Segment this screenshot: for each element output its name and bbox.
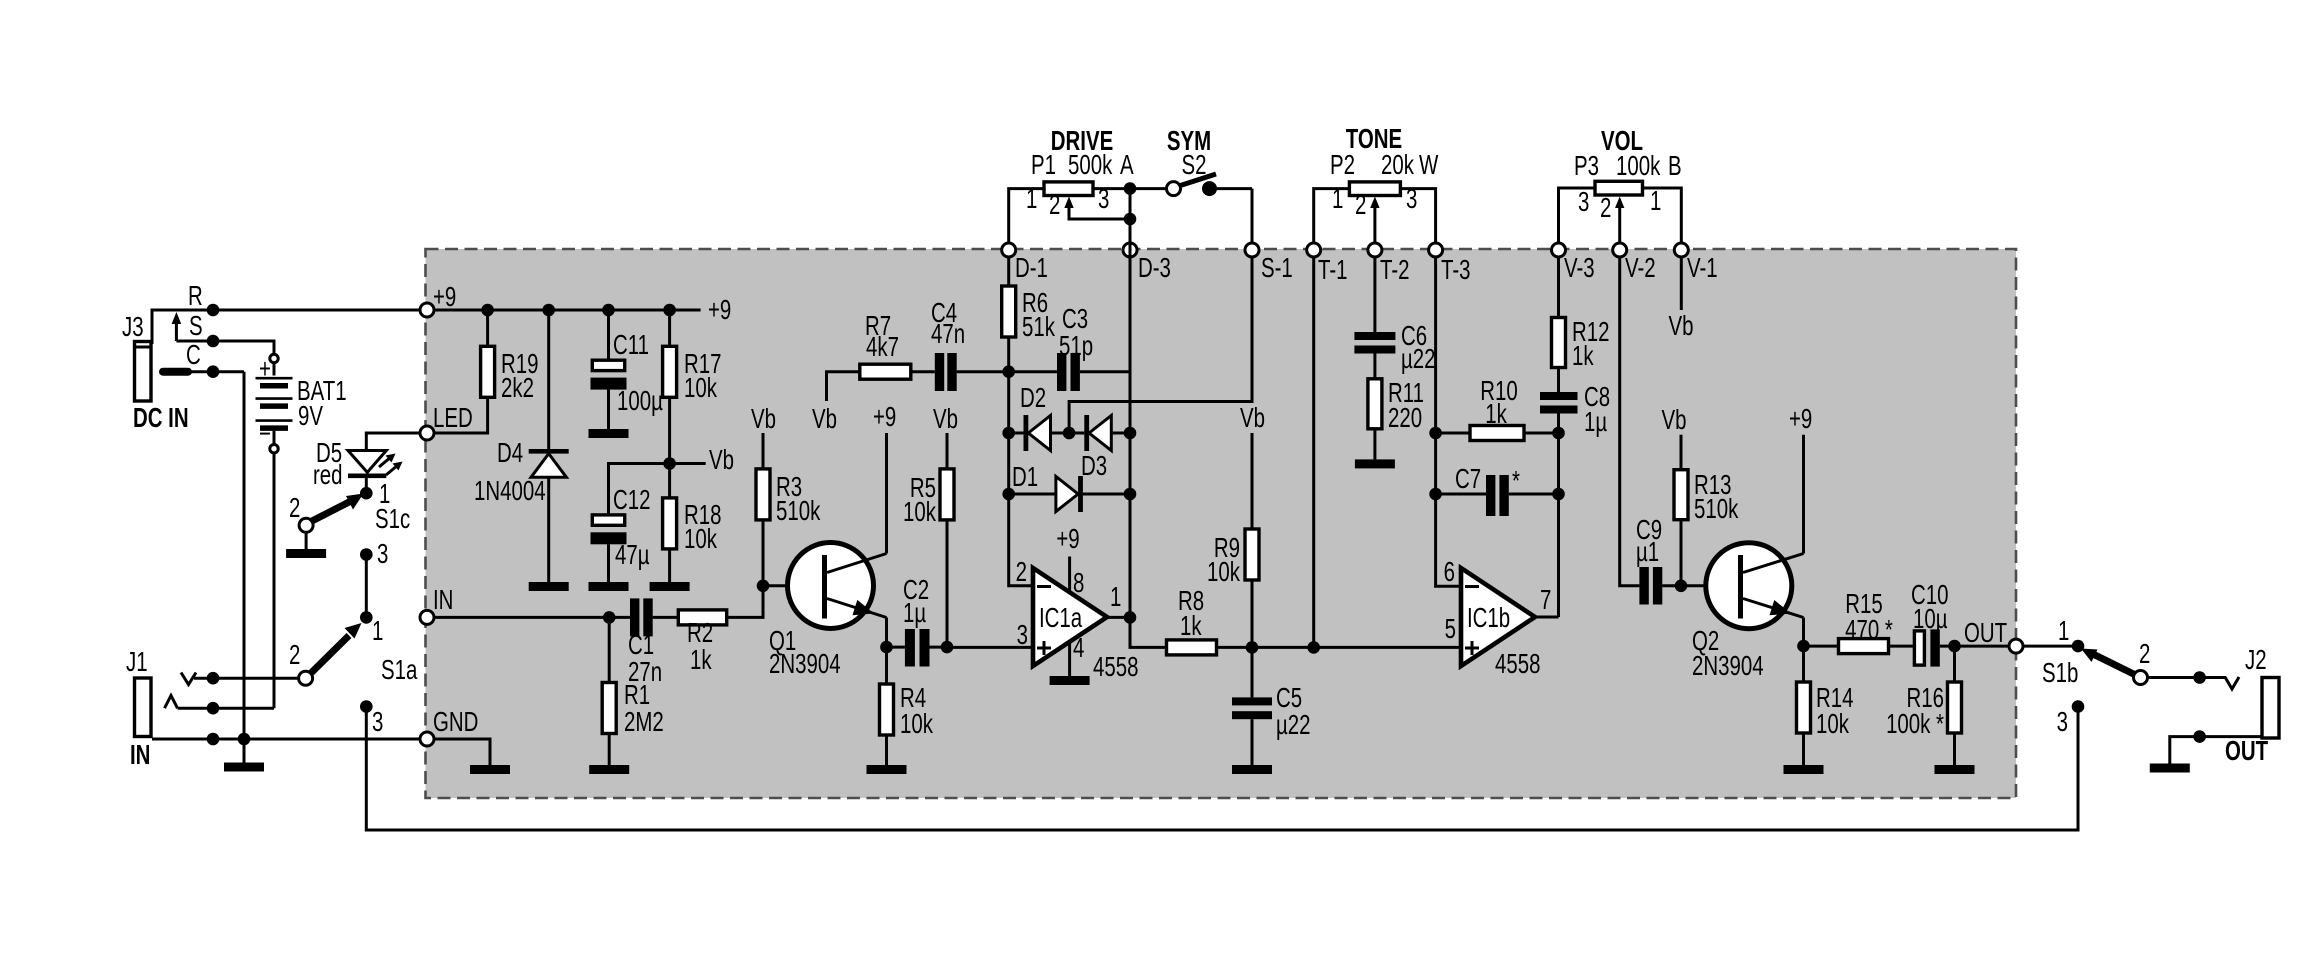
wire IC1a output [1107, 616, 1130, 619]
svg-text:2N3904: 2N3904 [1692, 651, 1764, 682]
svg-text:500k: 500k [1068, 150, 1113, 181]
J2 tip spring contact [2225, 677, 2239, 689]
svg-text:1k: 1k [690, 645, 712, 676]
svg-text:220: 220 [1388, 403, 1422, 434]
svg-text:µ22: µ22 [1401, 344, 1436, 375]
ground at S1c [286, 532, 326, 558]
svg-text:P2: P2 [1330, 150, 1355, 181]
terminal +9 [420, 282, 456, 317]
svg-text:−: − [259, 419, 271, 450]
svg-text:10k: 10k [684, 373, 718, 404]
capacitor C2 1u [887, 575, 948, 666]
svg-text:Vb: Vb [933, 404, 958, 435]
junction D1/D-3 column [1124, 488, 1137, 501]
connector J1 (input jack) [126, 647, 151, 771]
resistor R1 2M2 [602, 617, 664, 765]
svg-text:4k7: 4k7 [866, 332, 899, 363]
svg-text:DC IN: DC IN [133, 403, 189, 434]
svg-text:6: 6 [1444, 557, 1455, 588]
svg-text:51p: 51p [1059, 331, 1093, 362]
svg-text:1: 1 [1110, 582, 1121, 613]
resistor R11 220 [1368, 378, 1424, 459]
wire S1b pin2 to J2 [2148, 676, 2227, 679]
connector J2 (output jack) [2225, 645, 2279, 767]
svg-text:3: 3 [2057, 707, 2068, 738]
junction +9 C11 [602, 304, 615, 317]
diode D4 1N4004 [474, 310, 569, 582]
svg-text:27n: 27n [628, 657, 662, 688]
svg-text:510k: 510k [776, 496, 821, 527]
svg-text:470 *: 470 * [1845, 615, 1893, 646]
ground at R14 [1784, 765, 1824, 774]
svg-text:9V: 9V [298, 401, 324, 432]
svg-text:+9: +9 [433, 282, 456, 313]
svg-text:T-3: T-3 [1441, 255, 1471, 286]
switch S1a [289, 611, 418, 686]
junction T-1 column [1307, 641, 1320, 654]
junction C2 / R5 [941, 641, 954, 654]
svg-text:1: 1 [2058, 616, 2069, 647]
wire S-1 terminal stub [1251, 189, 1254, 243]
svg-text:47n: 47n [931, 319, 965, 350]
capacitor C8 1u [1540, 382, 1610, 617]
resistor R9 10k [1207, 403, 1265, 647]
svg-text:Vb: Vb [709, 445, 734, 476]
resistor R19 2k2 [434, 310, 538, 433]
svg-text:10k: 10k [1207, 557, 1241, 588]
svg-text:1: 1 [372, 616, 383, 647]
svg-text:Vb: Vb [1662, 405, 1687, 436]
wire J2 sleeve row [2170, 737, 2262, 764]
op-amp IC1a 4558 [1016, 557, 1139, 683]
resistor R7 4k7 [812, 311, 935, 435]
svg-text:S: S [189, 311, 203, 342]
svg-text:A: A [1120, 150, 1134, 181]
P2 wiper arm [1370, 197, 1379, 244]
terminal GND [420, 707, 478, 746]
wire J3 top to R row to +9 terminal [152, 310, 427, 344]
P1 wiper arm [1064, 197, 1130, 220]
switch S1b [2042, 616, 2150, 689]
svg-text:3: 3 [1098, 184, 1109, 215]
svg-text:1: 1 [1332, 184, 1343, 215]
svg-text:2: 2 [1355, 190, 1366, 221]
junction D-1/C4/C3 [1002, 365, 1015, 378]
junction J2 sleeve [2193, 730, 2206, 743]
wire battery minus down to J1 ring row [273, 453, 276, 708]
node S [189, 311, 219, 347]
junction IN/R1/C1 [603, 611, 616, 624]
junction J1 ring contact [207, 702, 220, 715]
junction C10/R16 [1948, 640, 1961, 653]
ground at C5 [1232, 765, 1272, 774]
wire S1a pin3 to pin1 [365, 555, 368, 618]
wire T-3 column [1436, 257, 1461, 586]
switch S1c [289, 479, 410, 535]
junction sleeve b [238, 733, 251, 746]
diode D3 [1069, 415, 1130, 482]
wire D-3 column [1130, 243, 1167, 647]
ground at C11 [589, 429, 629, 438]
ground at IC1a pin 4 [1050, 642, 1090, 685]
svg-text:10k: 10k [684, 524, 718, 555]
capacitor C1 27n [628, 598, 678, 687]
terminal IN [420, 585, 453, 624]
svg-text:J3: J3 [122, 312, 144, 343]
capacitor C4 47n [931, 298, 1057, 391]
svg-text:IN: IN [433, 585, 453, 616]
resistor R17 10k [663, 310, 722, 464]
junction P1 pin3 / S2 [1124, 182, 1137, 195]
svg-text:1: 1 [1650, 186, 1661, 217]
svg-text:OUT: OUT [2225, 736, 2268, 767]
svg-text:D1: D1 [1012, 462, 1038, 493]
junction R10/V-3 column [1552, 427, 1565, 440]
wire IC1b output to V-3 column [1535, 616, 1559, 619]
resistor R5 10k [940, 433, 954, 647]
wire S1a pin2 to J1 tip [194, 677, 299, 680]
svg-text:510k: 510k [1694, 494, 1739, 525]
svg-text:10k: 10k [1816, 709, 1850, 740]
+9 stub at Q2 collector [1789, 404, 1812, 553]
svg-text:+9: +9 [708, 295, 731, 326]
op-amp IC1b 4558 [1444, 557, 1552, 680]
capacitor C6 u22 [1354, 257, 1435, 379]
svg-text:1: 1 [1026, 184, 1037, 215]
svg-text:10k: 10k [900, 709, 934, 740]
terminal OUT [2009, 639, 2023, 653]
+9 rail [434, 295, 731, 326]
ground at D4 [529, 582, 569, 591]
+9 stub at IC1a pin 8 [1056, 524, 1079, 592]
capacitor C5 u22 [1232, 647, 1311, 765]
terminal T-3 [1429, 243, 1471, 286]
svg-text:J1: J1 [126, 647, 148, 678]
svg-text:IC1a: IC1a [1039, 603, 1082, 634]
junction P1 wiper / D-3 column [1124, 213, 1137, 226]
svg-text:2: 2 [1049, 190, 1060, 221]
svg-text:V-3: V-3 [1564, 253, 1595, 284]
potentiometer P3 VOL 100k B [1559, 126, 1682, 243]
terminal V-3 [1552, 243, 1595, 284]
capacitor C11 100u [591, 310, 663, 429]
junction +9 R19 [481, 304, 494, 317]
svg-text:100k: 100k [1616, 151, 1661, 182]
svg-text:1k: 1k [1180, 611, 1202, 642]
J1 tip spring contact [181, 673, 196, 685]
wire Q2 emitter down [1802, 618, 1805, 647]
capacitor C10 10u [1911, 580, 2009, 667]
svg-text:+9: +9 [873, 402, 896, 433]
svg-text:LED: LED [433, 403, 473, 434]
svg-text:C7: C7 [1455, 464, 1481, 495]
ground at R11 [1355, 459, 1395, 468]
svg-text:3: 3 [1578, 187, 1589, 218]
resistor R6 51k [1002, 257, 1056, 586]
ground at J1 [224, 739, 264, 772]
svg-text:2: 2 [289, 493, 300, 524]
junction D2/D3 [1063, 427, 1076, 440]
ground at J2 [2150, 764, 2190, 773]
svg-text:D4: D4 [497, 438, 523, 469]
svg-text:Vb: Vb [1240, 403, 1265, 434]
wire Q1 emitter down [885, 618, 888, 648]
wire V-2 column to C9 [1620, 257, 1640, 586]
ground at R18 [650, 582, 690, 591]
battery BAT1 9V [256, 354, 347, 453]
svg-text:D-3: D-3 [1138, 253, 1171, 284]
S1b pin 3 [2057, 700, 2085, 738]
svg-text:W: W [1419, 150, 1439, 181]
Vb stub at V-1 terminal [1669, 257, 1694, 342]
switch S1a pin 3 top [360, 539, 388, 570]
R5 value labels [903, 473, 937, 528]
junction R8/R9/C5 [1246, 641, 1259, 654]
junction sleeve a [207, 733, 220, 746]
svg-text:µ1: µ1 [1636, 537, 1659, 568]
svg-text:OUT: OUT [1964, 618, 2007, 649]
wire IN row [434, 616, 630, 619]
svg-text:+9: +9 [1789, 404, 1812, 435]
J3 tip contact pin [163, 368, 244, 376]
wire OUT terminal to S1b pin1 [2023, 645, 2078, 648]
ground at R16 [1935, 765, 1975, 774]
svg-text:P3: P3 [1574, 151, 1599, 182]
svg-text:IC1b: IC1b [1467, 603, 1510, 634]
ground at C12 [589, 582, 629, 591]
svg-text:J2: J2 [2245, 645, 2267, 676]
circuit board shaded area [426, 249, 2017, 798]
svg-text:10k: 10k [903, 497, 937, 528]
svg-text:D2: D2 [1020, 383, 1046, 414]
capacitor C12 47u [591, 464, 670, 583]
junction IC1a output / D-3 column [1124, 611, 1137, 624]
svg-text:Vb: Vb [1669, 311, 1694, 342]
connector J3 (DC IN jack) [122, 312, 189, 434]
svg-text:V-2: V-2 [1625, 253, 1656, 284]
junction C7/V-3 column [1552, 488, 1565, 501]
junction T-3/R10 [1429, 427, 1442, 440]
junction +9 R17 [663, 304, 676, 317]
svg-text:2: 2 [1016, 557, 1027, 588]
terminal T-2 [1368, 243, 1410, 286]
svg-text:5: 5 [1445, 614, 1456, 645]
ground at R1 [589, 765, 629, 774]
wire S row to battery plus [176, 341, 274, 354]
svg-text:1N4004: 1N4004 [474, 476, 546, 507]
capacitor C9 u1 [1636, 515, 1681, 604]
svg-text:GND: GND [433, 707, 478, 738]
junction Q1 emitter node [880, 641, 893, 654]
svg-text:V-1: V-1 [1687, 253, 1718, 284]
svg-text:T-2: T-2 [1380, 255, 1410, 286]
svg-text:Vb: Vb [812, 404, 837, 435]
terminal V-1 [1674, 243, 1717, 284]
svg-text:8: 8 [1073, 568, 1084, 599]
junction C9/R13/Q2 base [1675, 580, 1688, 593]
junction T-3/C7 [1429, 488, 1442, 501]
wire D2/D3 node to S-1 column [1069, 257, 1252, 433]
transistor Q2 2N3904 [1681, 543, 1804, 682]
node R [188, 281, 219, 316]
svg-text:µ22: µ22 [1276, 710, 1311, 741]
svg-text:2: 2 [289, 640, 300, 671]
svg-text:R: R [188, 281, 203, 312]
svg-text:1µ: 1µ [903, 598, 926, 629]
svg-text:7: 7 [1540, 585, 1551, 616]
svg-text:2M2: 2M2 [624, 707, 664, 738]
junction D-1/D2 [1002, 427, 1015, 440]
junction J1 tip contact [207, 672, 220, 685]
resistor R13 510k [1662, 405, 1739, 586]
wire J1 sleeve to GND terminal [152, 738, 427, 741]
svg-text:3: 3 [1406, 184, 1417, 215]
svg-text:+9: +9 [1056, 524, 1079, 555]
potentiometer P2 TONE 20k W [1314, 124, 1439, 243]
wire T-1 column [1312, 257, 1315, 647]
junction Q2 emitter node [1797, 640, 1810, 653]
terminal S-1 [1245, 243, 1293, 284]
resistor R8 1k [1167, 586, 1462, 655]
resistor R15 470 [1804, 589, 1913, 654]
P3 wiper arm [1615, 197, 1624, 244]
svg-text:51k: 51k [1022, 312, 1056, 343]
svg-text:red: red [313, 460, 343, 491]
ground at GND terminal [434, 739, 510, 774]
transistor Q1 2N3904 [763, 543, 887, 680]
svg-text:S1b: S1b [2042, 658, 2078, 689]
svg-text:3: 3 [377, 539, 388, 570]
junction D-1/D1 [1002, 488, 1015, 501]
junction Q1 base / R3 [757, 580, 770, 593]
resistor R10 1k [1436, 376, 1559, 440]
resistor R3 510k [751, 404, 821, 586]
diode D2 [1009, 383, 1069, 451]
svg-text:B: B [1668, 151, 1682, 182]
svg-text:4: 4 [1073, 633, 1084, 664]
svg-text:C12: C12 [613, 485, 650, 516]
svg-text:S1a: S1a [381, 655, 418, 686]
resistor R12 1k [1552, 257, 1610, 392]
svg-text:S-1: S-1 [1261, 253, 1293, 284]
potentiometer P1 DRIVE 500k A [1009, 126, 1134, 243]
node C [186, 340, 219, 378]
+9 stub at Q1 collector [873, 402, 896, 553]
svg-text:2: 2 [1600, 193, 1611, 224]
switch S1a pin 3 lower [360, 700, 383, 738]
J1 ring spring contact [165, 696, 178, 709]
svg-text:D-1: D-1 [1015, 253, 1048, 284]
wire J1 ring row to battery column [178, 707, 275, 710]
svg-text:47µ: 47µ [615, 540, 650, 571]
junction J2 tip [2193, 671, 2206, 684]
svg-text:2N3904: 2N3904 [769, 649, 841, 680]
resistor R14 10k [1797, 646, 1854, 765]
svg-text:P1: P1 [1031, 150, 1056, 181]
resistor R16 100k [1886, 646, 1961, 765]
svg-text:1k: 1k [1572, 341, 1594, 372]
svg-text:100k *: 100k * [1886, 709, 1944, 740]
capacitor C3 51p [1057, 304, 1130, 391]
junction +9 D4 [542, 304, 555, 317]
svg-text:2k2: 2k2 [501, 373, 534, 404]
J3 switch arrow (R-S) [172, 312, 182, 341]
svg-text:20k: 20k [1381, 150, 1415, 181]
svg-text:2: 2 [2139, 639, 2150, 670]
switch S2 SYM [1130, 126, 1252, 196]
svg-text:IN: IN [130, 740, 150, 771]
bypass wire S1a pin3 to S1b pin3 [366, 707, 2078, 830]
LED D5 red [313, 433, 427, 491]
svg-text:10µ: 10µ [1913, 604, 1948, 635]
node Vb [663, 445, 734, 476]
terminal T-1 [1307, 243, 1348, 286]
resistor R18 10k [663, 464, 722, 583]
svg-text:D3: D3 [1081, 451, 1107, 482]
terminal V-2 [1613, 243, 1656, 284]
svg-text:4558: 4558 [1495, 649, 1540, 680]
junction D3/D-3 column [1124, 427, 1137, 440]
svg-text:3: 3 [372, 707, 383, 738]
svg-text:100µ: 100µ [617, 386, 663, 417]
wire D-3 terminal stub [1129, 189, 1132, 243]
wire C2 node to IC1a pin3 [947, 646, 1033, 649]
terminal D-1 [1002, 243, 1048, 284]
diode D1 [1009, 462, 1130, 512]
svg-text:Vb: Vb [751, 404, 776, 435]
capacitor C7 [1436, 464, 1559, 516]
svg-text:+: + [259, 354, 271, 385]
svg-text:C: C [186, 340, 201, 371]
svg-text:S1c: S1c [375, 504, 410, 535]
svg-text:T-1: T-1 [1318, 255, 1348, 286]
wire C row down to ground row [243, 372, 246, 739]
resistor R2 1k [678, 586, 763, 676]
svg-text:C11: C11 [613, 330, 649, 361]
svg-text:4558: 4558 [1093, 652, 1138, 683]
svg-text:*: * [1512, 466, 1520, 497]
terminal D-3 [1123, 243, 1171, 284]
resistor R4 10k [880, 647, 934, 765]
ground at R4 [867, 765, 907, 774]
terminal LED [420, 403, 473, 440]
svg-text:1µ: 1µ [1584, 407, 1607, 438]
svg-text:1k: 1k [1485, 399, 1507, 430]
svg-text:3: 3 [1017, 620, 1028, 651]
